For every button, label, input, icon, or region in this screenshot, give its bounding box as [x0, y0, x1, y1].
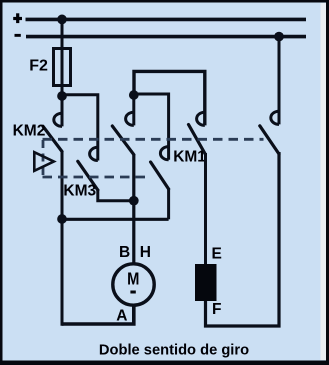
fuse F2 body: [54, 49, 71, 86]
wire: fuse branch vertical: [61, 19, 64, 126]
wire: bridge between KM2 pole2 and KM1: [134, 71, 205, 125]
label plus: [13, 17, 22, 20]
svg-text:H: H: [140, 244, 151, 261]
wire: plus rail: [26, 18, 307, 22]
mechanical linkage dashed upper: [43, 138, 264, 141]
contactor KM2 pole2 fixed hook: [126, 112, 134, 125]
wire: motor branch vertical: [132, 154, 135, 263]
wire: brake bottom loop: [206, 152, 280, 326]
node: junction dot below fuse: [57, 91, 67, 101]
wire: horizontal mid feed to KM3 pole2: [134, 94, 169, 160]
wire: KM2 pole1 lower vertical: [61, 151, 64, 326]
node: junction dot on plus rail: [57, 15, 67, 25]
contactor KM2 pole1 moving contact: [43, 126, 62, 151]
wire: KM1 pole2 upper vertical: [278, 37, 281, 125]
wire: minus rail: [26, 35, 306, 39]
contactor KM3 pole2 fixed hook: [160, 147, 168, 160]
contactor KM1 pole2 moving contact: [260, 126, 279, 154]
wire: KM3 pole1 bottom to motor node: [98, 189, 134, 201]
wire: KM1 branch to brake component: [204, 153, 207, 265]
node: junction dot mid feed: [129, 90, 139, 100]
node: junction dot KM2 lower: [57, 214, 67, 224]
wire: KM3 pole2 bottom vertical: [167, 188, 170, 219]
svg-text:M: M: [127, 269, 139, 288]
contactor KM3 pole1 moving contact: [78, 161, 98, 190]
node: junction dot motor branch: [129, 196, 139, 206]
wire: KM2 pole2 upper stub: [132, 95, 135, 125]
contactor KM1 pole1 moving contact: [189, 125, 206, 155]
interlock triangle symbol: [34, 152, 54, 171]
label minus: [15, 34, 21, 37]
svg-text:KM2: KM2: [13, 123, 46, 140]
svg-text:F: F: [212, 301, 221, 318]
component EF brake coil: [195, 264, 217, 301]
wire: motor bottom loop: [62, 306, 134, 325]
motor M1 circle: [113, 264, 154, 305]
contactor KM1 pole1 fixed hook: [197, 112, 205, 125]
motor minus mark: [130, 291, 135, 294]
contactor KM2 pole1 fixed hook: [54, 113, 62, 126]
contactor KM3 pole1 fixed hook: [90, 147, 98, 160]
svg-text:E: E: [212, 246, 222, 263]
svg-text:KM3: KM3: [63, 182, 96, 199]
wire: horizontal from fuse node to KM3 pole1: [62, 95, 98, 161]
contactor KM1 pole2 fixed hook: [271, 111, 279, 124]
frame bottom bar: [0, 361, 329, 365]
frame right bar: [326, 0, 329, 365]
svg-text:A: A: [116, 308, 127, 325]
frame right light strip: [321, 3, 327, 360]
svg-text:F2: F2: [29, 58, 48, 75]
wire: horizontal link to KM3 pole2 bottom: [62, 218, 169, 221]
contactor KM3 pole2 moving contact: [151, 162, 169, 189]
svg-text:B: B: [119, 244, 130, 261]
mechanical linkage dashed vertical: [42, 140, 45, 177]
node: junction dot on minus rail: [274, 32, 284, 42]
contactor KM2 pole2 moving contact: [112, 126, 134, 155]
mechanical linkage dashed lower: [43, 176, 151, 179]
svg-text:KM1: KM1: [173, 149, 206, 166]
svg-text:Doble sentido de giro: Doble sentido de giro: [99, 342, 249, 358]
